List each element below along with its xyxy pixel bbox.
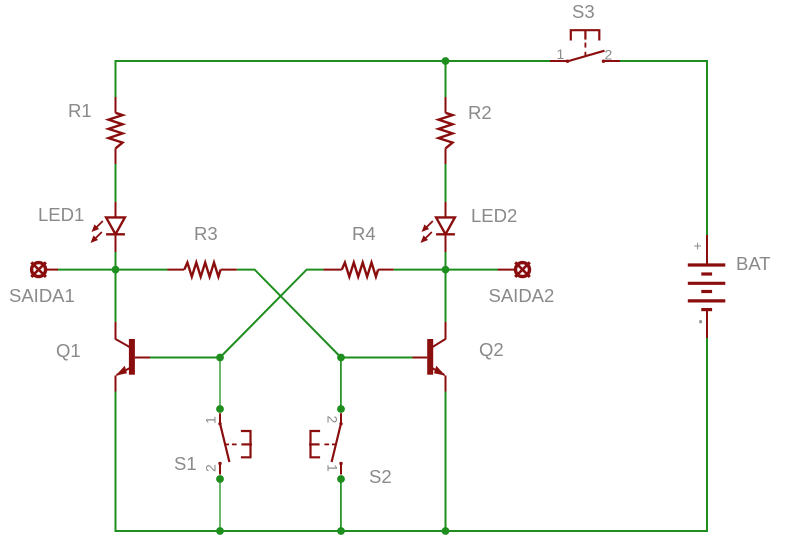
- wire node to R3: [116, 269, 168, 271]
- svg-text:1: 1: [203, 416, 219, 424]
- node Q1 base: [216, 354, 224, 362]
- wire R3 to Q2 base diagonal: [237, 270, 341, 358]
- svg-text:R4: R4: [352, 223, 376, 244]
- resistor R2: [439, 97, 492, 164]
- node S1 top: [216, 405, 224, 413]
- resistor R3: [168, 223, 237, 277]
- svg-text:BAT: BAT: [736, 253, 771, 274]
- svg-text:Q1: Q1: [56, 340, 81, 361]
- wire bottom rail: [116, 530, 709, 532]
- svg-text:S3: S3: [572, 1, 595, 22]
- node Q2 base: [337, 354, 345, 362]
- svg-text:Q2: Q2: [479, 339, 504, 360]
- node S2 bottom: [337, 475, 345, 483]
- svg-text:SAIDA1: SAIDA1: [9, 285, 75, 306]
- node bottom rail S1: [216, 527, 224, 535]
- svg-text:R1: R1: [68, 100, 92, 121]
- wire R4 to node: [394, 269, 446, 271]
- wire Q2 base: [341, 357, 413, 359]
- LED LED2: [421, 202, 518, 252]
- wire mid vertical segment A: [445, 61, 447, 97]
- wire mid vertical segment C: [445, 252, 447, 322]
- svg-text:2: 2: [605, 47, 613, 63]
- wire Q1 base: [150, 357, 220, 359]
- connector SAIDA1: [9, 262, 75, 306]
- resistor R4: [323, 223, 393, 277]
- svg-text:1: 1: [325, 464, 341, 472]
- wire top rail right: [620, 60, 708, 62]
- svg-text:SAIDA2: SAIDA2: [489, 285, 555, 306]
- wire S1 to bottom rail: [219, 479, 221, 531]
- wire right vertical top: [706, 60, 708, 235]
- wire S2 to bottom rail: [340, 479, 342, 531]
- wire base node to S1: [219, 358, 221, 410]
- svg-text:S1: S1: [174, 453, 197, 474]
- svg-text:2: 2: [203, 464, 219, 472]
- svg-text:2: 2: [325, 416, 341, 424]
- battery BAT: [688, 235, 771, 338]
- wire top rail left: [116, 60, 551, 62]
- svg-text:LED1: LED1: [38, 204, 84, 225]
- wire left vertical segment B: [115, 164, 117, 202]
- wire mid vertical segment D: [445, 392, 447, 533]
- node S2 top: [337, 405, 345, 413]
- resistor R1: [68, 97, 123, 164]
- wire mid vertical segment B: [445, 164, 447, 202]
- svg-text:LED2: LED2: [471, 205, 517, 226]
- node bottom rail Q2: [442, 527, 450, 535]
- connector SAIDA2: [489, 262, 555, 306]
- wire left vertical segment C: [115, 252, 117, 322]
- wire node to SAIDA2: [446, 269, 499, 271]
- wire SAIDA1 to node: [57, 269, 116, 271]
- switch S1: [174, 413, 252, 474]
- wire base node to S2: [340, 358, 342, 410]
- svg-text:+: +: [694, 238, 702, 254]
- node S1 bottom: [216, 475, 224, 483]
- node SAIDA2 column: [442, 266, 450, 274]
- wire left vertical segment A: [115, 60, 117, 97]
- node bottom rail S2: [337, 527, 345, 535]
- wire R4 to Q1 base diagonal: [220, 270, 323, 358]
- switch S3: [550, 1, 620, 63]
- svg-text:1: 1: [557, 46, 565, 62]
- svg-text:S2: S2: [369, 466, 392, 487]
- transistor Q2: [413, 322, 504, 392]
- switch S2: [309, 413, 392, 487]
- wire right vertical bottom: [706, 338, 708, 532]
- node top rail R2 column: [442, 57, 450, 65]
- transistor Q1: [56, 322, 150, 392]
- svg-text:R2: R2: [468, 102, 492, 123]
- node SAIDA1 column: [112, 266, 120, 274]
- wire left vertical segment D: [115, 392, 117, 533]
- svg-text:R3: R3: [194, 223, 218, 244]
- LED LED1: [38, 202, 125, 252]
